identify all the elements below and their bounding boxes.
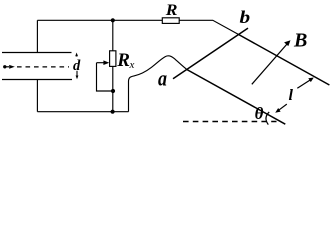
wire bottom horizontal (37, 111, 128, 113)
resistor R1 box (162, 18, 179, 24)
angle theta arc (266, 112, 269, 125)
svg-text:R: R (165, 1, 178, 19)
svg-text:d: d (73, 58, 81, 74)
particle dot (3, 65, 6, 68)
svg-text:R: R (116, 50, 130, 71)
rheostat Rx box (110, 51, 116, 67)
d dimension up arrow (76, 55, 78, 57)
capacitor top plate (2, 52, 72, 54)
node wiper junction dot (111, 89, 115, 93)
wire top horizontal right segment to bend (179, 20, 238, 34)
flexible wire curve to a (129, 56, 187, 82)
magnetic field arrow B (252, 43, 288, 84)
capacitor bottom plate (2, 79, 72, 81)
d dimension down arrow (76, 71, 78, 78)
wire top horizontal left segment (37, 19, 162, 21)
dimension l upper arrow (297, 80, 311, 89)
svg-text:x: x (129, 59, 135, 71)
rail lower from a (187, 70, 285, 125)
node junction dot top (111, 18, 115, 22)
node bottom junction dot (111, 110, 115, 114)
ground dashed line (183, 121, 277, 123)
wire bottom plate down (36, 80, 38, 112)
particle velocity arrow (6, 66, 9, 68)
rheostat wiper arrow (97, 62, 105, 64)
wire Rx bottom down (112, 66, 114, 111)
dashed beam line (17, 66, 69, 68)
wire left vertical to top plate (36, 20, 38, 52)
svg-text:B: B (293, 30, 307, 52)
svg-text:l: l (289, 87, 294, 104)
wiper wire down and right (97, 63, 114, 91)
svg-text:a: a (158, 67, 167, 91)
wire upturn right of bottom wire (128, 82, 130, 112)
svg-text:θ: θ (255, 104, 264, 123)
dimension l lower arrow (279, 104, 287, 110)
conducting rod ab (173, 28, 248, 79)
svg-text:b: b (240, 7, 251, 27)
rail upper from b (239, 35, 330, 86)
wire from junction down to Rx (112, 20, 114, 51)
